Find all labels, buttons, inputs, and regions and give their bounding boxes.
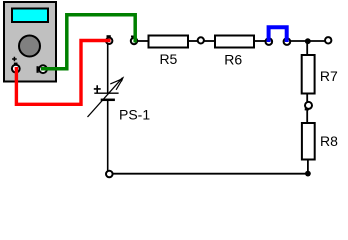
- power supply PS-1 variable arrow shaft: [88, 78, 123, 117]
- power supply PS-1 arrow barb long: [110, 79, 121, 84]
- junction I (bottom right): [305, 171, 311, 177]
- node H (between R7 and R8): [305, 102, 312, 109]
- svg-text:R5: R5: [159, 51, 177, 67]
- junction F (top right): [305, 38, 311, 44]
- node A (PS-1 plus terminal) tab: [107, 35, 111, 37]
- multimeter right terminal: [39, 65, 47, 73]
- wire R8 to junction I: [307, 161, 309, 173]
- multimeter body: [4, 2, 56, 82]
- resistor R5: [149, 36, 189, 48]
- power supply PS-1 top plate: [94, 92, 118, 94]
- wire blue jumper (node D to node E): [269, 27, 287, 42]
- node D (jumper left terminal): [266, 38, 273, 45]
- power supply PS-1 arrow head: [120, 76, 125, 82]
- node C (between R5 and R6): [198, 37, 204, 43]
- resistor R6: [215, 36, 254, 48]
- svg-text:R8: R8: [320, 133, 338, 149]
- node J (open terminal bottom left): [106, 171, 113, 178]
- wire bottom (junction I to node J): [113, 173, 306, 175]
- wire node E to node G: [290, 40, 325, 42]
- node H tab: [305, 108, 309, 110]
- node A (PS-1 plus terminal): [106, 38, 112, 44]
- wire green (multimeter COM to node B): [41, 15, 135, 69]
- multimeter left terminal: [12, 65, 20, 73]
- multimeter knob: [19, 36, 40, 57]
- wire R5 to node C: [188, 40, 198, 42]
- multimeter left terminal tab: [14, 63, 18, 65]
- wire node H to R8: [306, 110, 308, 124]
- svg-text:R7: R7: [320, 68, 338, 84]
- wire node A to PS-1 top plate: [107, 44, 109, 93]
- node G (open terminal top right): [325, 37, 331, 43]
- wire R6 to node D: [254, 40, 265, 42]
- svg-text:PS-1: PS-1: [119, 106, 150, 122]
- node G tab dot: [329, 37, 331, 39]
- wire node C to R6: [204, 40, 215, 42]
- wire node B to R5: [137, 40, 149, 42]
- resistor R8: [302, 123, 315, 160]
- power supply PS-1 bottom plate: [101, 99, 115, 102]
- multimeter display: [12, 9, 48, 23]
- node B (R5 left terminal): [131, 38, 137, 44]
- power supply PS-1 plus sign: [94, 85, 101, 92]
- wire junction F to R7: [306, 43, 308, 55]
- node B (R5 left terminal) tab: [131, 36, 135, 38]
- multimeter right terminal tab: [37, 66, 39, 73]
- node E (jumper right terminal): [284, 38, 291, 45]
- power supply PS-1 arrow barb short: [116, 80, 122, 90]
- wire PS-1 bottom plate to node J: [107, 100, 109, 171]
- svg-text:R6: R6: [224, 51, 242, 67]
- wire red (multimeter plus to node A): [16, 41, 110, 105]
- wire R7 to node H: [306, 94, 308, 102]
- multimeter plus label: [12, 57, 17, 62]
- resistor R7: [302, 55, 315, 94]
